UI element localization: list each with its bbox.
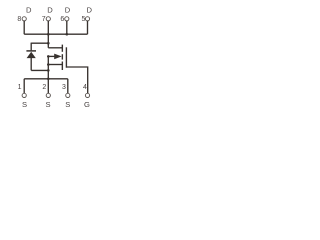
junction body finger/source vertical — [47, 55, 50, 58]
pin 5 terminal circle — [85, 17, 89, 21]
wire pin3 stub — [67, 79, 69, 94]
mosfet Q1 channel tick middle — [61, 54, 63, 59]
pin 7 terminal circle — [46, 17, 50, 21]
wire pin8 stub — [23, 21, 25, 34]
mosfet Q1 drain finger — [48, 47, 62, 49]
svg-text:5: 5 — [82, 16, 86, 23]
svg-text:D: D — [65, 6, 71, 15]
svg-text:2: 2 — [42, 84, 46, 91]
wire drain drop — [47, 34, 49, 48]
svg-text:4: 4 — [83, 84, 87, 91]
svg-text:S: S — [22, 100, 27, 109]
diode D1 anode triangle — [27, 52, 36, 58]
mosfet Q1 source finger — [48, 64, 62, 66]
background — [0, 0, 130, 120]
svg-text:6: 6 — [60, 16, 64, 23]
mosfet Q1 channel tick bottom — [61, 62, 63, 71]
wire pin5 stub — [87, 21, 89, 34]
svg-text:D: D — [26, 6, 32, 15]
svg-text:8: 8 — [17, 16, 21, 23]
svg-text:D: D — [47, 6, 53, 15]
mosfet Q1 gate bar — [65, 47, 67, 67]
pin 3 terminal circle — [66, 93, 70, 97]
wire drain bus — [24, 33, 87, 35]
pin 6 terminal circle — [65, 17, 69, 21]
svg-text:G: G — [84, 100, 90, 109]
svg-text:D: D — [86, 6, 92, 15]
junction pin2/source bus — [47, 78, 50, 81]
wire pin7 stub — [47, 21, 49, 34]
pin 4 terminal circle — [85, 93, 89, 97]
wire drain to diode cathode — [31, 42, 48, 44]
junction drain/diode node — [47, 42, 50, 45]
junction anode wire/source vertical — [47, 69, 50, 72]
wire gate lead to pin 4 — [66, 67, 87, 94]
mosfet Q1 body arrow — [54, 54, 62, 60]
wire pin2 stub — [47, 79, 49, 94]
junction pin6/drain bus — [66, 33, 69, 36]
svg-text:3: 3 — [62, 84, 66, 91]
pin 1 terminal circle — [22, 93, 26, 97]
pin 2 terminal circle — [46, 93, 50, 97]
wire diode anode lead — [30, 58, 32, 71]
wire source bus — [24, 78, 68, 80]
mosfet Q1 channel tick top — [61, 45, 63, 52]
wire diode cathode lead — [30, 43, 32, 51]
mosfet Q1 body finger — [48, 55, 55, 57]
wire pin6 stub — [66, 21, 68, 34]
svg-text:S: S — [45, 100, 50, 109]
wire pin1 stub — [23, 79, 25, 94]
pin 8 terminal circle — [22, 17, 26, 21]
svg-text:7: 7 — [42, 16, 46, 23]
junction source finger/source vertical — [47, 63, 50, 66]
svg-text:1: 1 — [18, 84, 22, 91]
junction pin7/drain bus — [47, 33, 50, 36]
wire source drop — [47, 56, 49, 78]
diode D1 cathode bar — [26, 50, 36, 52]
wire anode to source node — [31, 69, 48, 71]
svg-text:S: S — [65, 100, 70, 109]
